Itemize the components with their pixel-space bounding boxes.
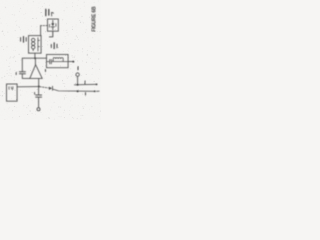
svg-text:FIGURE 6B: FIGURE 6B: [91, 6, 97, 32]
